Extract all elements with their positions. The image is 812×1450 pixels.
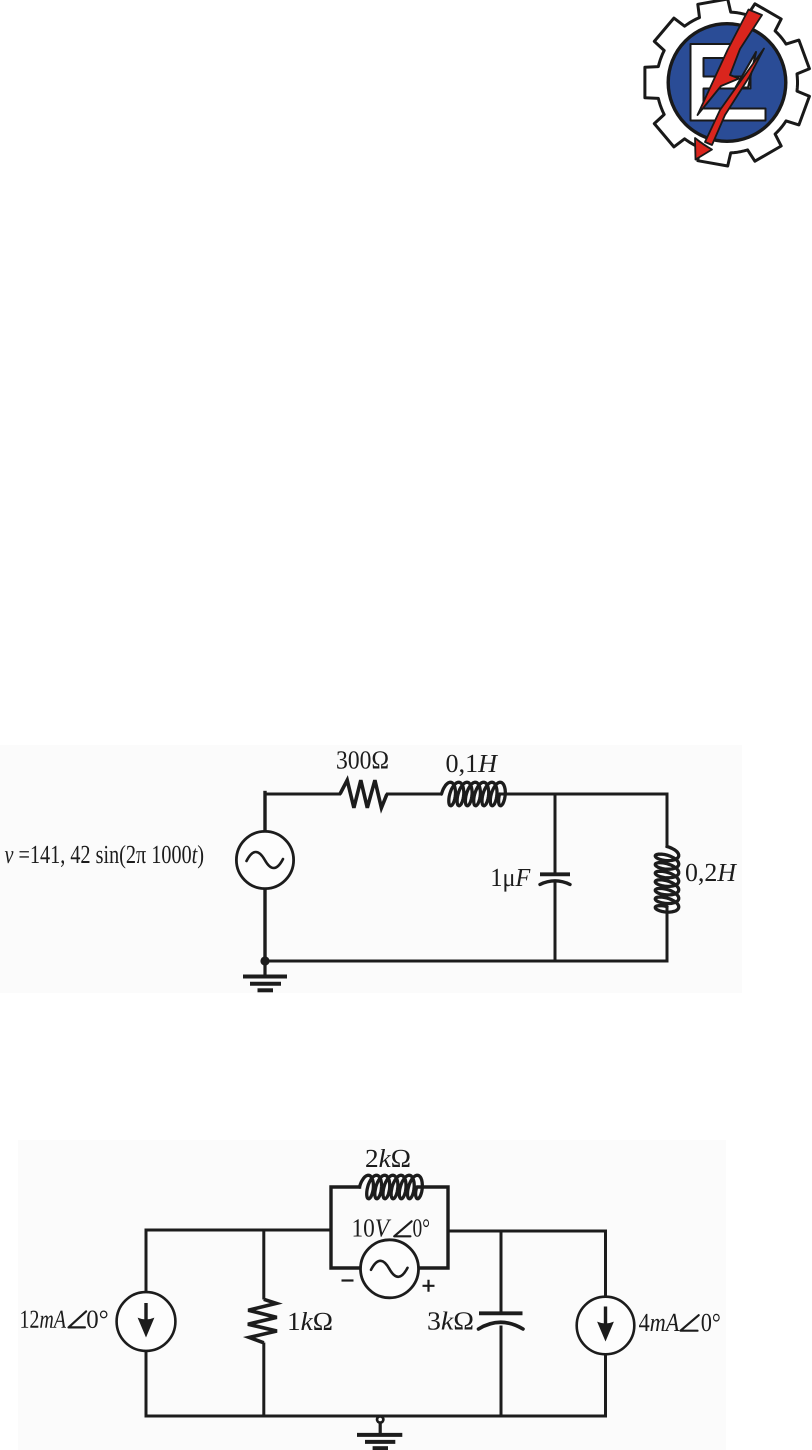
wire bottom rail C2 [146, 1415, 606, 1418]
current source I1 12mA [117, 1292, 176, 1351]
ground C1 [243, 961, 287, 990]
junction node dot C1 [260, 956, 269, 965]
label 1uF [492, 869, 530, 892]
wire bottom rail C1 [265, 960, 667, 963]
resistor 300ohm [340, 780, 387, 808]
label 0,1H [447, 755, 499, 776]
label minus sign V2 [342, 1279, 354, 1281]
capacitor 1uF [540, 874, 570, 884]
label 10V angle 0deg [354, 1219, 429, 1237]
wire capacitor branch C1 [554, 794, 557, 961]
wire source bottom stub [263, 889, 266, 962]
label 300ohm [337, 751, 388, 769]
wire parallel box C2 [331, 1187, 448, 1268]
resistor 1kohm [248, 1299, 277, 1343]
label plus sign V2 [423, 1280, 435, 1292]
inductor 0,2H [655, 847, 678, 913]
label 0,2H [686, 864, 737, 885]
capacitor 3kohm [479, 1313, 524, 1329]
label 3kohm [428, 1312, 472, 1330]
wire left source branch C2 [145, 1230, 148, 1416]
inductor 0,1H [442, 782, 506, 805]
label source equation [5, 845, 203, 869]
label 1kohm [289, 1312, 331, 1330]
wire top rail left C2 [146, 1229, 331, 1232]
inductor 2kohm [360, 1175, 423, 1198]
wire capacitor branch C2 [500, 1231, 503, 1416]
wire top rail C1 [265, 793, 667, 796]
logo UNIFEI gear emblem [645, 0, 810, 166]
label 4mA angle 0deg [639, 1314, 720, 1332]
wire resistor branch C2 [262, 1230, 265, 1416]
voltage source V2 [361, 1240, 419, 1298]
wire top rail right C2 [448, 1230, 606, 1233]
wire right source branch C2 [604, 1231, 607, 1416]
wire inductor branch C1 [666, 794, 669, 961]
current source I2 4mA [577, 1297, 635, 1355]
label 12mA angle 0deg [21, 1311, 107, 1329]
voltage source V1 [236, 831, 293, 888]
wire source top stub [263, 793, 266, 832]
label 2kohm [366, 1149, 409, 1167]
ground C2 with terminal ring [357, 1415, 402, 1448]
